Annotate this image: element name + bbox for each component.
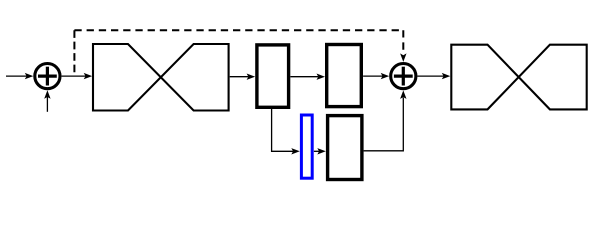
- wire: B1 to block B2 with arrowhead: [290, 74, 325, 80]
- wire: S1 output to block X1 with arrowhead: [62, 73, 93, 79]
- wire: branch from B1 bottom down and right to blue block D1: [272, 109, 300, 155]
- summing junction S1: [35, 64, 60, 89]
- block B2 (tall rectangle): [327, 45, 362, 107]
- wire: S2 output to block X2 with arrowhead: [418, 73, 451, 79]
- wire: B3 output right and up into S2 bottom with arrowhead: [364, 90, 407, 150]
- block D1 (blue thin rectangle): [301, 115, 312, 178]
- wire: lower input arrow into summing junction S1: [44, 90, 50, 112]
- block B1 (tall rectangle): [257, 45, 289, 107]
- block X1 (bowtie block): [93, 44, 229, 111]
- wire: X1 to block B1 with arrowhead: [230, 74, 255, 80]
- summing junction S2: [391, 64, 416, 89]
- wire: D1 to block B3 with arrowhead: [314, 148, 326, 154]
- block X2 (bowtie block): [451, 45, 586, 110]
- wire: input arrow into summing junction S1: [6, 73, 33, 79]
- block B3 (tall rectangle, lower branch): [328, 116, 362, 180]
- wire: B2 output to summing junction S2 with arrowhead: [363, 73, 389, 79]
- wire: dashed feedback path from S1 output up and over to S2: [74, 30, 406, 76]
